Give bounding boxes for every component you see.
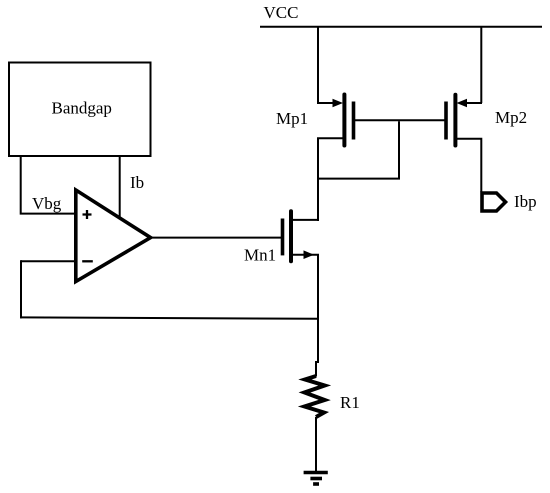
transistor Mp2 drain wire	[455, 139, 481, 192]
transistor Mp1 channel bar	[342, 95, 346, 146]
wire VCC rail	[260, 26, 542, 28]
transistor Mn1 gate bar	[281, 219, 285, 256]
transistor Mp2 source arrow	[457, 99, 468, 108]
svg-text:Mp1: Mp1	[276, 109, 308, 128]
svg-text:VCC: VCC	[264, 3, 299, 22]
wire VCC drop to Mp2 source	[480, 26, 482, 103]
transistor Mn1 source wire	[291, 255, 318, 319]
ground symbol bar 3	[313, 482, 319, 486]
wire feedback: left vertical	[20, 260, 22, 318]
op-amp	[76, 190, 151, 282]
port Ibp symbol	[482, 193, 506, 211]
wire feedback: bottom horizontal to Mn1 source node	[20, 317, 318, 318]
transistor Mp1 drain wire	[318, 138, 344, 221]
svg-text:Ib: Ib	[130, 173, 144, 192]
ground symbol bar 1	[304, 471, 328, 475]
transistor Mp2 source wire	[462, 102, 482, 104]
wire Vbg: bandgap left pin to op-amp + input	[21, 156, 75, 214]
wire gate line Mp1 to Mp2	[354, 119, 447, 121]
svg-text:R1: R1	[340, 393, 360, 412]
svg-text:Mp2: Mp2	[495, 108, 527, 127]
wire feedback: op-amp minus input to left	[21, 260, 75, 262]
resistor R1	[305, 376, 325, 417]
wire R1 to ground	[315, 417, 317, 471]
svg-text:Ibp: Ibp	[514, 192, 537, 211]
transistor Mp1 gate bar	[352, 102, 356, 140]
transistor Mp1 source arrow	[333, 99, 344, 108]
ground symbol bar 2	[310, 477, 322, 481]
wire Ib: bandgap right pin down to op-amp	[119, 156, 121, 217]
svg-text:Vbg: Vbg	[32, 194, 62, 213]
transistor Mn1 channel bar	[289, 211, 293, 261]
op-amp plus input mark	[83, 210, 92, 219]
svg-text:Mn1: Mn1	[244, 246, 276, 265]
transistor Mn1 source arrow	[304, 250, 315, 259]
wire Mp1 drain node to gate tie	[318, 121, 399, 178]
transistor Mn1 drain wire	[291, 178, 318, 220]
wire op-amp output to Mn1 gate	[153, 237, 282, 239]
svg-text:Bandgap: Bandgap	[52, 99, 112, 118]
transistor Mp1 source wire	[317, 102, 338, 104]
transistor Mp2 gate bar	[444, 102, 448, 140]
transistor Mp2 channel bar	[453, 95, 457, 146]
op-amp minus input mark	[82, 260, 93, 262]
wire VCC drop to Mp1 source	[317, 26, 319, 103]
wire Mn1 source node down to R1	[316, 318, 318, 376]
bandgap block	[9, 63, 151, 157]
